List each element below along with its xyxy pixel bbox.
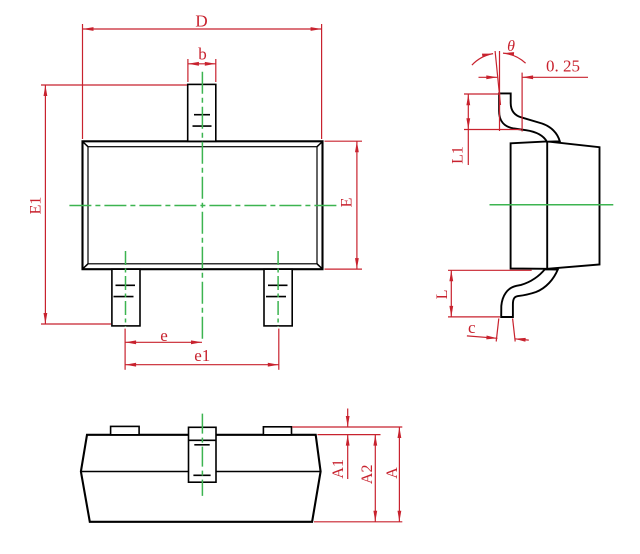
top pin tick 1 xyxy=(194,114,210,116)
chamfer bottom-left xyxy=(83,264,88,269)
svg-text:e: e xyxy=(160,326,168,345)
front ext line body top xyxy=(318,434,381,436)
side view body edge line xyxy=(546,141,548,268)
chamfer top-right xyxy=(317,142,322,147)
svg-text:c: c xyxy=(468,318,476,337)
dimension E1 extension bottom xyxy=(41,323,111,325)
svg-text:A2: A2 xyxy=(359,465,376,485)
0.25 dim right line xyxy=(522,76,588,78)
dimension A2 line xyxy=(374,435,376,522)
theta arc left xyxy=(472,54,493,66)
theta arc left arrowhead xyxy=(482,52,493,58)
center line vertical (top view) xyxy=(201,72,203,341)
dimension L1 line xyxy=(467,94,469,129)
dimension D extension right xyxy=(321,24,323,139)
center line pin3 xyxy=(277,251,279,327)
svg-text:b: b xyxy=(198,45,207,64)
top pin (pin 2) xyxy=(188,84,216,141)
front view middle pin xyxy=(189,427,217,482)
svg-text:A: A xyxy=(384,467,401,479)
svg-text:E1: E1 xyxy=(28,197,45,215)
dimension c extension left xyxy=(496,319,499,342)
top view body inner xyxy=(88,147,317,264)
svg-text:E: E xyxy=(338,198,355,208)
dimension L1 extension top xyxy=(464,93,501,95)
theta reference line vertical xyxy=(499,51,501,131)
dimension A line xyxy=(398,427,400,522)
extension pin1 bottom xyxy=(124,329,126,370)
front view middle pin shoulder xyxy=(189,439,217,441)
front view left tab xyxy=(111,426,140,434)
front ext line top xyxy=(292,426,402,428)
0.25 dim left arrow xyxy=(479,76,498,78)
dimension D extension left xyxy=(82,24,84,139)
dimension L line xyxy=(450,270,452,317)
dimension L extension top xyxy=(448,269,532,271)
svg-text:A1: A1 xyxy=(330,459,347,479)
chamfer top-left xyxy=(83,142,88,147)
svg-text:D: D xyxy=(195,12,207,31)
side view bottom lead xyxy=(501,269,558,317)
bottom left pin (pin 1) xyxy=(112,269,140,326)
dimension b extension left xyxy=(187,59,189,82)
bottom right pin (pin 3) xyxy=(264,269,292,326)
center line horizontal (top view) xyxy=(69,205,339,207)
front view parting line xyxy=(81,471,321,473)
dimension L extension bottom xyxy=(448,316,500,318)
dimension E1 extension top xyxy=(41,84,187,86)
pin1 tick 1 xyxy=(116,284,136,286)
theta arc right arrowhead xyxy=(503,51,514,56)
dimension e line xyxy=(125,341,202,343)
dimension c extension right xyxy=(513,319,516,342)
dimension E line xyxy=(356,141,358,269)
chamfer bottom-right xyxy=(317,264,322,269)
top view body outer xyxy=(83,141,323,269)
dimension b extension right xyxy=(215,59,217,82)
extension pin3 bottom xyxy=(278,329,280,370)
dimension E extension bottom xyxy=(325,268,363,270)
theta arc right xyxy=(503,53,526,63)
dimension A1 upper arrow xyxy=(347,409,349,428)
dimension D line xyxy=(83,28,322,30)
dimension e1 line xyxy=(125,364,279,366)
svg-text:L: L xyxy=(434,289,451,299)
front middle pin tick 1 xyxy=(194,444,209,446)
pin1 tick 2 xyxy=(114,296,134,298)
center line pin1 xyxy=(125,251,127,327)
front ext line bottom xyxy=(314,521,402,523)
front view right tab xyxy=(263,427,291,435)
0.25 extension line xyxy=(521,73,523,132)
svg-text:θ: θ xyxy=(507,38,515,55)
dimension E1 line xyxy=(44,85,46,324)
dimension b line xyxy=(188,63,216,65)
pin3 tick 2 xyxy=(266,296,286,298)
front view center line xyxy=(201,414,203,496)
dimension L1 tail xyxy=(467,129,469,165)
top pin tick 2 xyxy=(193,125,212,127)
dimension L1 extension bottom xyxy=(464,129,521,131)
svg-text:L1: L1 xyxy=(450,146,467,164)
front middle pin tick 2 xyxy=(193,474,210,476)
pin3 tick 1 xyxy=(268,284,288,286)
side view top lead xyxy=(499,93,560,141)
side view body xyxy=(511,141,600,268)
svg-text:e1: e1 xyxy=(194,346,210,365)
dimension E extension top xyxy=(325,140,363,142)
svg-text:0. 25: 0. 25 xyxy=(546,57,580,76)
dimension A1 lower arrow xyxy=(347,435,349,479)
dimension c left line xyxy=(467,336,498,338)
front view body xyxy=(81,435,321,522)
dimension c right line xyxy=(515,339,529,340)
side view center line xyxy=(490,204,614,206)
theta reference line tilted xyxy=(495,51,500,105)
